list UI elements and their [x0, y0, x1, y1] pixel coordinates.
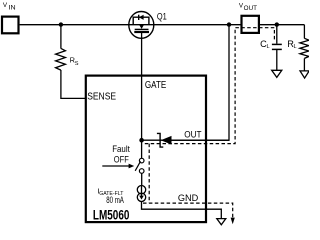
- Q1 body diode triangle: [139, 15, 144, 20]
- label IGATE-FLT: [97, 187, 123, 197]
- svg-text:LM5060: LM5060: [93, 207, 130, 222]
- svg-text:Q1: Q1: [157, 11, 167, 21]
- svg-text:OUT: OUT: [184, 128, 201, 139]
- wire main rail VIN to VOUT: [20, 24, 241, 26]
- wire dashed fault current path upper (to VOUT and CL): [145, 28, 275, 144]
- svg-text:L: L: [267, 44, 270, 50]
- svg-text:IN: IN: [9, 4, 17, 11]
- svg-text:SENSE: SENSE: [87, 92, 116, 103]
- wire RS to SENSE pin: [61, 70, 86, 98]
- ground system: [217, 219, 226, 225]
- svg-text:Fault: Fault: [112, 144, 130, 154]
- wire main rail VOUT to RL: [260, 24, 305, 26]
- svg-text:GATE: GATE: [145, 80, 167, 91]
- Q1 body diode bar: [138, 15, 140, 20]
- label RS: [70, 56, 79, 67]
- capacitor CL: [272, 44, 282, 49]
- current source IGATE-FLT: [137, 186, 145, 202]
- IC U1 LM5060 box: [86, 76, 206, 223]
- resistor RL: [300, 38, 309, 58]
- svg-text:S: S: [75, 61, 79, 67]
- wire to RL: [303, 25, 305, 39]
- terminal VOUT: [242, 16, 259, 33]
- wire OUT pin to rail: [171, 25, 229, 141]
- diode D1 gate clamp (zener): [161, 136, 172, 145]
- label RL: [287, 39, 296, 50]
- switch SW bottom contact: [139, 169, 144, 174]
- arrow fault current into ground: [231, 218, 235, 225]
- current source arrow: [139, 186, 144, 200]
- diode D1 cathode bar: [157, 133, 163, 147]
- terminal VIN: [2, 17, 19, 34]
- resistor RS: [56, 48, 66, 70]
- wire RL to ground: [303, 58, 305, 71]
- node junction CL: [275, 22, 279, 26]
- wire to CL: [276, 25, 278, 44]
- wire gate junction to OUT clamp diode: [142, 139, 229, 141]
- node VOUT label: [239, 2, 257, 12]
- wire dashed fault path (switch column): [148, 144, 150, 204]
- wire Q1 gate to GATE pin junction: [141, 32, 143, 140]
- wire dashed fault path bottom (to ground): [143, 203, 233, 217]
- ground CL: [272, 70, 282, 77]
- Q1 channel arrow: [139, 25, 144, 29]
- switch SW blade: [135, 161, 140, 171]
- wire junction to switch: [141, 140, 143, 158]
- node junction OUT: [227, 22, 231, 26]
- switch SW top contact: [139, 158, 144, 163]
- wire switch to current source: [141, 173, 143, 185]
- arrow fault off: [102, 164, 134, 169]
- svg-text:OFF: OFF: [114, 154, 129, 165]
- transistor Q1 (PMOS with body diode): [129, 12, 154, 39]
- wire junction to RS: [60, 25, 62, 49]
- svg-text:80 mA: 80 mA: [106, 195, 124, 205]
- svg-text:L: L: [294, 44, 297, 50]
- svg-text:GND: GND: [178, 193, 198, 204]
- ground RL: [300, 71, 309, 78]
- label CL: [260, 39, 270, 50]
- svg-text:OUT: OUT: [244, 5, 257, 12]
- wire current source to GND pin and external ground: [142, 202, 222, 219]
- node VIN label: [3, 2, 16, 12]
- node GATE junction: [139, 138, 144, 143]
- node junction RS: [59, 22, 63, 26]
- wire CL to ground: [276, 49, 278, 70]
